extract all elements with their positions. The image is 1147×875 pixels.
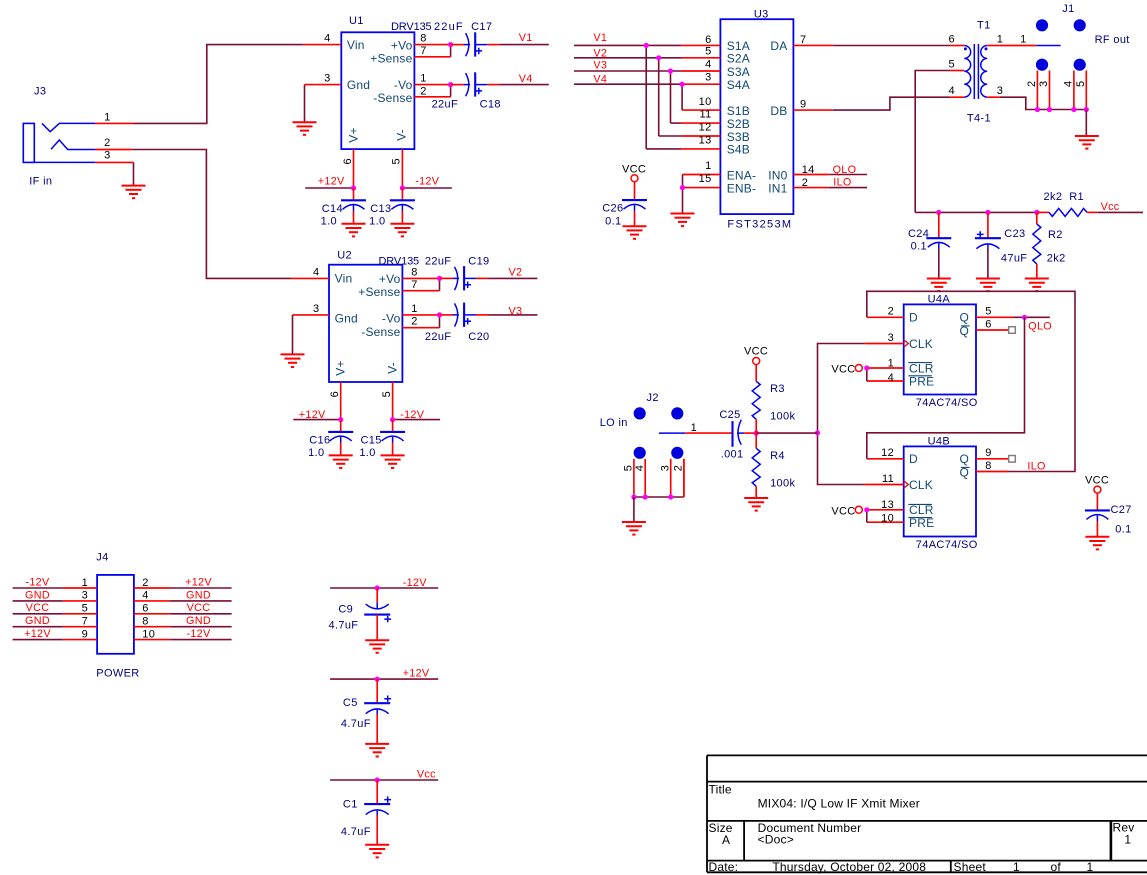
svg-text:Q: Q — [959, 452, 969, 466]
svg-text:6: 6 — [948, 34, 954, 46]
svg-text:8: 8 — [411, 267, 417, 279]
svg-text:Sheet: Sheet — [954, 860, 987, 874]
svg-text:Vcc: Vcc — [417, 768, 436, 780]
ground at J2 — [622, 522, 646, 535]
ground at U3 enable — [671, 214, 695, 227]
junction U2 V+ rail — [338, 417, 343, 422]
wire net VCC at J4 right — [170, 613, 231, 615]
svg-text:CLK: CLK — [909, 478, 933, 492]
svg-text:4.7uF: 4.7uF — [341, 826, 371, 838]
junction J2 bus pin5 — [631, 494, 636, 499]
U4A pin 1 stub CLR — [867, 367, 904, 369]
svg-text:C19: C19 — [468, 255, 489, 267]
svg-text:+Vo: +Vo — [379, 272, 401, 286]
J4 pin 8 stub — [134, 626, 170, 628]
svg-text:13: 13 — [881, 499, 894, 511]
no-connect at U4A pin 6 — [1009, 327, 1016, 334]
svg-text:QLO: QLO — [1028, 321, 1052, 333]
junction C5 — [375, 677, 380, 682]
T1 pin 3 stub — [987, 96, 1000, 98]
svg-text:GND: GND — [186, 615, 211, 627]
svg-text:GND: GND — [186, 589, 211, 601]
svg-text:DRV135: DRV135 — [391, 21, 432, 33]
power -12V bar at C9 — [330, 587, 438, 589]
J2 pin 2 lead — [683, 459, 685, 497]
svg-text:+12V: +12V — [185, 576, 212, 588]
wire J2 bus to ground — [633, 497, 635, 522]
svg-text:14: 14 — [802, 164, 815, 176]
ground at C26 — [623, 226, 647, 239]
svg-text:7: 7 — [800, 34, 806, 46]
svg-text:V4: V4 — [593, 73, 607, 85]
svg-text:Vin: Vin — [347, 38, 365, 52]
junction J1 pin3 — [1047, 107, 1052, 112]
svg-text:1: 1 — [691, 422, 697, 434]
svg-text:3: 3 — [324, 73, 330, 85]
J3 tip contact pin 1 — [42, 123, 96, 131]
svg-text:-12V: -12V — [403, 577, 428, 589]
T1 pin 4 stub — [950, 96, 964, 98]
svg-text:4.7uF: 4.7uF — [341, 718, 371, 730]
svg-text:4: 4 — [1063, 81, 1075, 87]
capacitor C15 — [392, 420, 394, 432]
junction clock node — [815, 430, 820, 435]
wire C25 node to clock vertical — [756, 432, 817, 434]
svg-text:2k2: 2k2 — [1047, 253, 1066, 265]
svg-text:1: 1 — [888, 357, 894, 369]
junction U4B CLR — [864, 507, 869, 512]
U3 pin 1 stub ENA- — [683, 174, 721, 176]
U1 pin 3 stub — [305, 84, 342, 86]
ground at C16 — [329, 455, 353, 468]
junction V2 — [656, 55, 661, 60]
U4B pin 9 stub Q — [976, 458, 1009, 460]
svg-text:9: 9 — [82, 628, 88, 640]
T1 pin 5 stub — [950, 70, 964, 72]
junction J1 pin4 — [1071, 107, 1076, 112]
U3 pin 10 stub S1B — [682, 109, 720, 111]
flip-flop U4A body — [904, 304, 976, 394]
U3 pin 2 stub IN1 — [793, 187, 828, 189]
svg-text:C15: C15 — [360, 435, 381, 447]
svg-text:1: 1 — [997, 34, 1003, 46]
svg-text:1: 1 — [1013, 860, 1020, 874]
svg-text:GND: GND — [25, 615, 50, 627]
junction rail C24 — [936, 210, 941, 215]
wire ENA to ENB to ground — [682, 175, 684, 214]
svg-text:U4B: U4B — [928, 436, 950, 448]
svg-text:<Doc>: <Doc> — [758, 833, 794, 847]
svg-text:CLR: CLR — [909, 361, 934, 375]
U2 pin 3 stub — [293, 314, 330, 316]
junction ENB — [680, 185, 685, 190]
svg-text:PRE: PRE — [909, 374, 934, 388]
svg-text:U4A: U4A — [928, 294, 951, 306]
svg-text:4: 4 — [324, 33, 330, 45]
resistor R2 — [1036, 212, 1038, 224]
wire U4B Qbar to U4A D feedback — [867, 291, 1075, 471]
connector J2 pad top-left — [634, 407, 646, 419]
capacitor C1 — [376, 780, 378, 804]
wire net ILO at U3 — [829, 187, 867, 189]
wire V4 to S1B — [681, 84, 683, 110]
U1 pin 2 -Sense feedback — [414, 96, 450, 98]
svg-text:A: A — [722, 833, 730, 847]
svg-text:VCC: VCC — [1085, 474, 1109, 486]
J4 pin 5 stub — [63, 613, 97, 615]
J4 pin 3 stub — [63, 600, 97, 602]
svg-text:12: 12 — [699, 122, 712, 134]
svg-text:8: 8 — [985, 460, 991, 472]
svg-text:-12V: -12V — [186, 628, 211, 640]
wire net V1 right — [574, 44, 681, 46]
svg-text:7: 7 — [411, 279, 417, 291]
svg-text:2: 2 — [104, 137, 110, 149]
J4 pin 1 stub — [63, 587, 97, 589]
U1 pin 4 stub — [303, 44, 341, 46]
svg-text:V4: V4 — [519, 73, 533, 85]
svg-text:2: 2 — [420, 85, 426, 97]
wire T1 pin3 to J1 ground bus — [1000, 97, 1086, 109]
capacitor C19 — [440, 266, 489, 290]
svg-text:0.1: 0.1 — [605, 216, 621, 228]
U2 pin 7 +Sense feedback — [402, 290, 439, 292]
svg-text:R2: R2 — [1048, 229, 1063, 241]
wire net GND at J4 right — [170, 626, 231, 628]
svg-text:8: 8 — [420, 33, 426, 45]
svg-text:9: 9 — [800, 99, 806, 111]
junction rail R2 — [1034, 210, 1039, 215]
connector J1 pad top-left — [1036, 19, 1048, 31]
svg-text:-Sense: -Sense — [373, 91, 412, 105]
svg-text:7: 7 — [82, 616, 88, 628]
svg-text:C16: C16 — [309, 435, 330, 447]
resistor R4 — [755, 433, 757, 448]
U1 Gnd wire to ground — [304, 85, 306, 122]
wire net GND at J4 left — [13, 626, 63, 628]
wire net GND at J4 left — [13, 600, 63, 602]
svg-text:1.0: 1.0 — [369, 216, 385, 228]
svg-text:4: 4 — [888, 372, 894, 384]
wire power rail — [915, 211, 1037, 213]
U4A pin 6 stub Qbar — [976, 329, 1009, 331]
junction V1 — [644, 43, 649, 48]
svg-text:3: 3 — [705, 72, 711, 84]
svg-text:D: D — [909, 452, 918, 466]
U4B pin 12 stub D — [867, 458, 904, 460]
svg-text:4.7uF: 4.7uF — [329, 620, 359, 632]
U3 pin 6 stub S1A — [681, 44, 720, 46]
J4 pin 7 stub — [63, 626, 97, 628]
svg-text:U1: U1 — [349, 15, 364, 27]
U2 pin 4 stub — [291, 277, 329, 279]
svg-text:6: 6 — [142, 603, 148, 615]
J3 sleeve pin 3 — [34, 161, 95, 163]
junction V3 — [668, 68, 673, 73]
svg-text:6: 6 — [985, 319, 991, 331]
svg-text:V1: V1 — [593, 32, 607, 44]
ground at C5 — [365, 744, 389, 757]
svg-text:5: 5 — [948, 59, 954, 71]
svg-text:0.1: 0.1 — [911, 240, 927, 252]
svg-text:3: 3 — [313, 303, 319, 315]
svg-text:2: 2 — [888, 306, 894, 318]
wire LO clock to both CLK — [818, 344, 865, 485]
svg-text:4: 4 — [705, 59, 711, 71]
ground at C15 — [381, 455, 405, 468]
T1 right phase dot — [985, 47, 988, 50]
svg-text:R3: R3 — [770, 383, 785, 395]
svg-text:5: 5 — [623, 465, 635, 471]
wire net GND at J4 right — [170, 600, 231, 602]
svg-text:4: 4 — [948, 85, 954, 97]
ground at C23 — [976, 279, 1000, 292]
svg-text:+12V: +12V — [24, 628, 51, 640]
capacitor C9 — [376, 588, 378, 603]
U4B pin 13 stub CLR — [867, 509, 904, 511]
wire V1 to S4B — [645, 45, 647, 148]
wire VCC to U4B CLR PRE — [866, 510, 868, 522]
svg-text:74AC74/SO: 74AC74/SO — [916, 539, 978, 551]
svg-text:V+: V+ — [347, 127, 361, 142]
svg-text:1: 1 — [411, 303, 417, 315]
capacitor C16 — [340, 420, 342, 432]
ground at C1 — [365, 845, 389, 858]
svg-text:3: 3 — [82, 590, 88, 602]
junction V4 — [680, 82, 685, 87]
svg-text:-12V: -12V — [400, 409, 425, 421]
capacitor C25 — [731, 421, 733, 447]
U3 pin 9 stub DB — [793, 109, 832, 111]
svg-text:9: 9 — [985, 447, 991, 459]
svg-text:11: 11 — [699, 109, 711, 121]
svg-text:Gnd: Gnd — [347, 78, 370, 92]
power +12V bar at C5 — [330, 678, 438, 680]
svg-text:5: 5 — [985, 306, 991, 318]
connector J2 pad bottom-right — [671, 447, 683, 459]
svg-text:DRV135: DRV135 — [379, 255, 420, 267]
svg-text:10: 10 — [699, 96, 712, 108]
svg-text:3: 3 — [660, 465, 672, 471]
power +12V bar at U2 — [293, 419, 340, 421]
svg-text:74AC74/SO: 74AC74/SO — [916, 397, 978, 409]
junction U2 +Vo/+Sense — [437, 276, 442, 281]
svg-text:4: 4 — [142, 590, 148, 602]
ground at C13 — [390, 224, 414, 237]
svg-text:-Vo: -Vo — [382, 312, 401, 326]
svg-text:RF out: RF out — [1095, 34, 1130, 46]
svg-text:ENA-: ENA- — [727, 168, 756, 182]
capacitor C20 — [440, 303, 489, 327]
wire net V4 left — [499, 84, 549, 86]
svg-text:C26: C26 — [602, 202, 623, 214]
svg-text:D: D — [909, 311, 918, 325]
connector J2 pad bottom-left — [634, 447, 646, 459]
svg-text:V3: V3 — [593, 60, 607, 72]
power -12V bar at U1 — [402, 187, 451, 189]
svg-text:GND: GND — [25, 589, 50, 601]
svg-text:4: 4 — [313, 267, 319, 279]
svg-text:3: 3 — [997, 85, 1003, 97]
svg-text:1: 1 — [104, 111, 110, 123]
connector J4 body — [97, 575, 134, 654]
power -12V bar at U2 — [393, 419, 440, 421]
U4A pin 2 stub D — [867, 316, 904, 318]
svg-text:S4B: S4B — [727, 143, 750, 157]
svg-text:6: 6 — [342, 158, 354, 164]
J3 ring contact pin 2 — [51, 140, 95, 150]
svg-text:POWER: POWER — [96, 668, 139, 680]
resistor R1 — [1037, 211, 1049, 213]
ground at C9 — [365, 640, 389, 653]
svg-text:IN1: IN1 — [768, 181, 787, 195]
svg-text:6: 6 — [705, 34, 711, 46]
T1 left phase dot — [964, 47, 967, 50]
svg-text:10: 10 — [142, 628, 155, 640]
U3 pin 5 stub S2A — [681, 57, 720, 59]
power Vcc bar at R1 — [1097, 211, 1143, 213]
wire J3 pin3 to ground — [133, 162, 135, 185]
ground at R2 — [1025, 279, 1049, 292]
U1 pin 1 stub -Vo — [414, 84, 450, 86]
svg-text:S1B: S1B — [727, 104, 750, 118]
U2 pin 8 stub +Vo — [402, 277, 439, 279]
U4A clock wedge — [904, 340, 909, 348]
junction U2 -Vo/-Sense — [437, 312, 442, 317]
J4 pin 9 stub — [63, 639, 97, 641]
svg-text:1: 1 — [420, 73, 426, 85]
wire J2 ground bus — [634, 496, 684, 498]
junction J2 bus pin3 — [668, 494, 673, 499]
junction U4A CLR — [864, 365, 869, 370]
J1 pin 5 lead — [1085, 71, 1087, 110]
svg-text:ILO: ILO — [1027, 460, 1045, 472]
svg-text:22uF: 22uF — [432, 98, 458, 110]
transformer T1 left coil — [964, 46, 970, 98]
J2 pin 4 lead — [644, 459, 646, 497]
svg-text:-12V: -12V — [25, 576, 50, 588]
svg-text:C1: C1 — [343, 799, 358, 811]
U3 pin 11 stub S2B — [681, 122, 720, 124]
junction J1 pin2 — [1035, 107, 1040, 112]
wire J1 bus to ground — [1085, 110, 1087, 136]
svg-text:1: 1 — [1020, 34, 1026, 46]
svg-text:C18: C18 — [480, 98, 501, 110]
svg-text:V-: V- — [386, 362, 400, 374]
svg-text:Thursday, October 02, 2008: Thursday, October 02, 2008 — [772, 860, 926, 874]
svg-text:of: of — [1051, 860, 1062, 874]
svg-text:5: 5 — [381, 391, 393, 397]
svg-text:ILO: ILO — [833, 176, 851, 188]
junction QLO — [1022, 315, 1027, 320]
svg-text:U3: U3 — [754, 9, 769, 21]
wire J3 pin1 to U1 Vin — [134, 45, 304, 124]
svg-text:C24: C24 — [908, 228, 929, 240]
T1 pin 6 stub — [950, 45, 964, 47]
U3 pin 7 stub DA — [793, 44, 832, 46]
svg-text:3: 3 — [888, 332, 894, 344]
wire T1 pin5 to power rail — [915, 71, 950, 213]
junction rail C23 — [985, 210, 990, 215]
U3 pin 4 stub S3A — [681, 70, 720, 72]
wire U3 DB to T1 pin4 — [833, 97, 950, 110]
svg-text:100k: 100k — [770, 410, 795, 422]
U2 pin 1 stub -Vo — [402, 314, 439, 316]
svg-text:J4: J4 — [96, 551, 108, 563]
svg-text:IN0: IN0 — [768, 168, 787, 182]
svg-text:2: 2 — [802, 177, 808, 189]
wire net V4 right — [574, 83, 682, 85]
svg-text:J3: J3 — [34, 85, 46, 97]
svg-text:Vcc: Vcc — [1101, 201, 1120, 213]
svg-text:CLK: CLK — [909, 337, 933, 351]
svg-text:22uF: 22uF — [434, 21, 463, 33]
svg-text:ENB-: ENB- — [727, 181, 756, 195]
svg-text:22uF: 22uF — [425, 255, 451, 267]
J1 pin 2 lead — [1036, 71, 1038, 110]
svg-text:47uF: 47uF — [1001, 253, 1027, 265]
svg-text:12: 12 — [881, 447, 894, 459]
svg-text:1: 1 — [705, 160, 711, 172]
capacitor C14 — [353, 188, 355, 200]
U4A pin 4 stub PRE — [867, 380, 904, 382]
wire net V1 left — [499, 44, 549, 46]
svg-text:T4-1: T4-1 — [967, 113, 991, 125]
svg-text:Vin: Vin — [335, 272, 353, 286]
wire net V3 right — [574, 70, 681, 72]
svg-text:2: 2 — [673, 465, 685, 471]
svg-text:+Vo: +Vo — [391, 38, 413, 52]
U4A pin 3 stub CLK — [865, 343, 904, 345]
svg-text:1: 1 — [82, 577, 88, 589]
wire J3 pin2 to U2 Vin — [132, 150, 291, 279]
junction J1 pin5 — [1084, 107, 1089, 112]
U1 pin 7 +Sense feedback — [414, 56, 450, 58]
svg-text:-Sense: -Sense — [361, 325, 400, 339]
wire V2 to S3B — [658, 58, 660, 136]
svg-text:V2: V2 — [509, 266, 523, 278]
svg-text:VCC: VCC — [831, 364, 855, 376]
svg-text:+Sense: +Sense — [358, 285, 400, 299]
svg-text:Date:: Date: — [709, 860, 739, 874]
wire net -12V at J4 right — [170, 639, 231, 641]
power +12V bar at U1 — [305, 187, 353, 189]
svg-text:T1: T1 — [977, 19, 991, 31]
ground at C24 — [927, 279, 951, 292]
svg-text:QLO: QLO — [833, 164, 857, 176]
resistor R3 — [755, 364, 757, 381]
svg-text:5: 5 — [1075, 81, 1087, 87]
svg-text:2: 2 — [411, 316, 417, 328]
U2 pin 6 stub V+ — [340, 382, 342, 420]
J2 pin 5 lead — [633, 459, 635, 497]
svg-text:5: 5 — [82, 603, 88, 615]
wire net V2 left — [488, 277, 537, 279]
T1 pin 1 stub — [987, 45, 1000, 47]
svg-text:11: 11 — [882, 473, 894, 485]
svg-text:FST3253M: FST3253M — [727, 218, 791, 230]
svg-text:7: 7 — [420, 45, 426, 57]
svg-text:LO in: LO in — [600, 417, 628, 429]
svg-text:U2: U2 — [337, 249, 352, 261]
svg-text:VCC: VCC — [26, 602, 50, 614]
wire V3 to S2B — [670, 71, 672, 123]
svg-text:DB: DB — [770, 104, 787, 118]
svg-text:V1: V1 — [519, 32, 533, 44]
svg-text:-Vo: -Vo — [394, 78, 413, 92]
mux U3 body — [720, 19, 793, 214]
svg-text:+12V: +12V — [299, 409, 326, 421]
